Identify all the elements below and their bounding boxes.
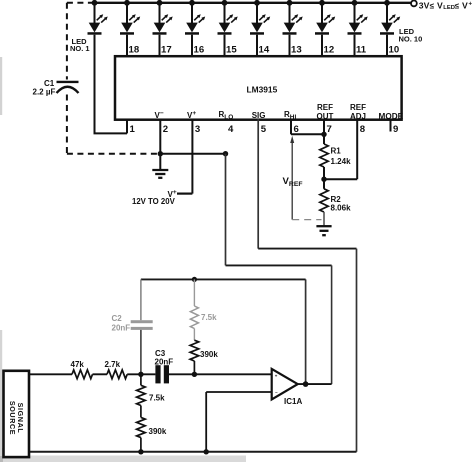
- junction: R1/R2 node: [321, 177, 326, 182]
- signal source box: [4, 371, 30, 457]
- svg-text:+: +: [275, 374, 278, 379]
- svg-text:NO. 1: NO. 1: [70, 44, 90, 53]
- svg-text:1: 1: [130, 124, 136, 135]
- svg-text:5: 5: [261, 124, 267, 135]
- wire: signal source bottom to rail: [28, 451, 30, 453]
- svg-text:13: 13: [291, 45, 302, 56]
- wire: bottom common rail: [29, 451, 357, 453]
- svg-text:+: +: [469, 1, 473, 7]
- svg-text:7.5k: 7.5k: [149, 393, 165, 402]
- svg-text:7: 7: [327, 124, 332, 135]
- svg-text:REF: REF: [350, 103, 366, 112]
- svg-text:9: 9: [393, 124, 398, 135]
- svg-text:10: 10: [389, 45, 400, 56]
- wire: feedback vertical from op-amp output: [305, 279, 307, 384]
- svg-text:4: 4: [228, 124, 234, 135]
- junction: signal node / C2 / 7.5k: [138, 372, 143, 377]
- svg-text:15: 15: [226, 45, 237, 56]
- svg-text:12: 12: [324, 45, 335, 56]
- svg-text:2.7k: 2.7k: [105, 360, 121, 369]
- junction: pin4 node: [223, 151, 228, 156]
- wire: filter top rail: [141, 278, 306, 280]
- svg-text:16: 16: [194, 45, 205, 56]
- resistor 47k: [71, 360, 93, 379]
- resistor 7.5k (grey, feedback): [190, 279, 217, 340]
- resistor R2 8.06k: [320, 179, 351, 226]
- svg-text:C2: C2: [112, 314, 123, 323]
- wire: LED1 to pin 1: [94, 132, 128, 134]
- wire: [127, 373, 155, 375]
- svg-text:12V TO 20V: 12V TO 20V: [132, 197, 176, 206]
- wire: op-amp minus input: [206, 391, 272, 393]
- capacitor C1 2.2uF: [33, 79, 79, 97]
- svg-text:LED: LED: [443, 5, 455, 11]
- svg-text:V: V: [462, 0, 468, 10]
- svg-text:SOURCE: SOURCE: [8, 401, 17, 435]
- svg-text:8: 8: [360, 124, 366, 135]
- wire: pin9 stub MODE: [390, 119, 392, 132]
- svg-text:17: 17: [161, 45, 172, 56]
- svg-text:R1: R1: [331, 147, 342, 156]
- junction: pin7 node: [321, 132, 326, 137]
- svg-text:390k: 390k: [200, 350, 218, 359]
- svg-text:LM3915: LM3915: [247, 85, 278, 95]
- wire: pin2 stub V-: [159, 119, 161, 154]
- wire: pin6 stub RHI: [290, 119, 292, 134]
- ground below R2: [316, 226, 331, 235]
- svg-text:14: 14: [259, 45, 270, 56]
- wire: dashed C1 to pin2 node: [67, 153, 160, 155]
- resistor R1 1.24k: [320, 144, 351, 179]
- svg-text:2: 2: [163, 124, 168, 135]
- LED No.4: [185, 0, 205, 56]
- capacitor C2 20nF (grey): [112, 314, 153, 333]
- LED supply bus wire: [95, 2, 411, 4]
- wire: pin2 to pin4: [160, 153, 225, 155]
- wire: down to op-amp output: [331, 265, 333, 384]
- wire: signal source top: [29, 373, 73, 375]
- wire: [93, 373, 108, 375]
- junction: op-amp output node: [303, 381, 309, 387]
- wire: pin8 to R1/R2 node: [356, 119, 358, 179]
- svg-text:IC1A: IC1A: [284, 397, 302, 406]
- svg-text:SIG: SIG: [252, 111, 266, 120]
- capacitor C3 20nF: [155, 349, 174, 384]
- LED No.8: [315, 0, 335, 56]
- wire: V+ feed: [177, 193, 192, 195]
- svg-text:11: 11: [356, 45, 367, 56]
- junction: op-amp minus path on rail: [204, 449, 209, 454]
- wire: top rail down to C2: [140, 279, 142, 320]
- svg-text:3: 3: [195, 124, 200, 135]
- wire: pin7 stub: [323, 119, 325, 144]
- wire: rail up to op-amp minus: [205, 392, 207, 452]
- svg-text:REF: REF: [317, 103, 333, 112]
- wire: pin5 across: [258, 248, 356, 250]
- junction: divider bottom on rail: [138, 449, 143, 454]
- LED No.6: [250, 0, 270, 56]
- op-amp IC1A: [272, 369, 303, 406]
- resistor 390k (feedback): [190, 340, 218, 374]
- wire: pin4 RLO down: [225, 154, 227, 266]
- VREF dashed measure arrow: [283, 136, 322, 220]
- terminal: LED supply: [411, 1, 417, 7]
- svg-text:2.2 µF: 2.2 µF: [33, 88, 56, 97]
- LED No.2: [120, 0, 140, 56]
- svg-text:1.24k: 1.24k: [331, 157, 352, 166]
- svg-text:47k: 47k: [71, 360, 85, 369]
- ground at pin2: [152, 154, 168, 178]
- IC U1 LM3915: [115, 56, 402, 119]
- resistor 7.5k (input divider): [137, 374, 166, 405]
- wire: C2 to signal node: [140, 330, 142, 374]
- svg-text:390k: 390k: [149, 427, 167, 436]
- wire: dashed LED supply to C1 (top): [67, 2, 95, 4]
- svg-text:7.5k: 7.5k: [201, 313, 217, 322]
- LED No.5: [218, 0, 238, 56]
- wire: pin1 stub: [126, 119, 128, 133]
- junction: top rail / 7.5k: [192, 277, 197, 282]
- svg-text:20nF: 20nF: [155, 357, 174, 366]
- resistor 2.7k: [105, 360, 128, 379]
- wire: pin5 SIG down: [257, 119, 259, 249]
- junction: 390k bottom / op-amp +: [192, 372, 197, 377]
- wire: dashed vertical through C1: [66, 3, 68, 80]
- wire: pin4 across: [226, 264, 332, 266]
- svg-text:6: 6: [294, 124, 299, 135]
- LED No.3: [153, 0, 173, 56]
- resistor 390k (input divider): [137, 406, 167, 452]
- svg-text:−: −: [275, 390, 278, 395]
- wire: pin3 stub V+: [191, 119, 193, 194]
- LED No.9: [348, 0, 368, 56]
- svg-text:20nF: 20nF: [112, 324, 131, 333]
- wire: op-amp output: [298, 383, 332, 385]
- svg-text:8.06k: 8.06k: [331, 204, 352, 213]
- svg-text:≤: ≤: [430, 1, 435, 10]
- svg-text:V: V: [437, 0, 443, 10]
- LED No.1: [88, 0, 108, 133]
- wire: SIG right vertical: [356, 249, 358, 452]
- wire: pin6 to pin7: [291, 133, 324, 135]
- junction: pin2 node: [158, 151, 163, 156]
- wire: C3 to op-amp + input: [169, 373, 272, 375]
- svg-text:3V: 3V: [419, 0, 430, 10]
- svg-text:18: 18: [129, 45, 140, 56]
- LED No.10: [380, 0, 400, 56]
- svg-text:NO. 10: NO. 10: [399, 35, 423, 44]
- svg-text:≤: ≤: [455, 1, 460, 10]
- LED No.7: [283, 0, 303, 56]
